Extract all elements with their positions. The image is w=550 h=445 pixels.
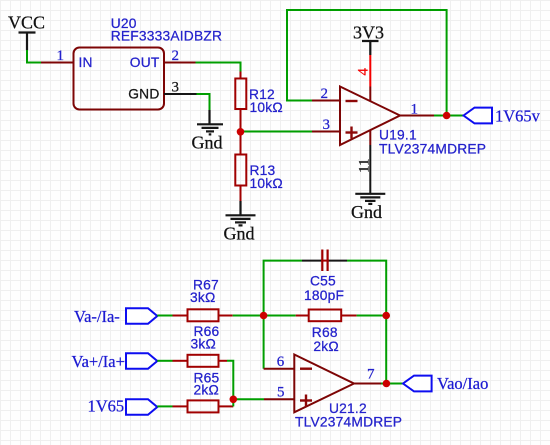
svg-text:1: 1: [57, 48, 65, 64]
svg-text:Gnd: Gnd: [351, 202, 382, 222]
svg-text:7: 7: [367, 367, 375, 383]
op-amp U19.1 triangle: [340, 87, 400, 146]
svg-text:2kΩ: 2kΩ: [194, 383, 220, 398]
svg-text:GND: GND: [128, 87, 159, 102]
feedback wire output to pin 2: [287, 10, 447, 116]
wire R68 to node B: [357, 315, 387, 317]
svg-text:3V3: 3V3: [353, 23, 384, 43]
resistor R65: [173, 400, 234, 412]
svg-text:3: 3: [172, 80, 180, 96]
wire pin 1 to port: [434, 115, 464, 117]
pin 5 (+) of U21.2: [264, 398, 294, 400]
port Vao/Iao: [403, 376, 432, 392]
svg-text:4: 4: [356, 68, 372, 76]
svg-text:3: 3: [323, 117, 331, 133]
minus marking U21.2: [300, 368, 312, 370]
power symbol 3V3: [353, 23, 384, 56]
wire node A up to C55: [264, 261, 302, 316]
svg-text:IN: IN: [79, 55, 93, 70]
IC U20 box: [74, 48, 165, 110]
pin 1 (out) of U19.1: [400, 115, 434, 117]
pin 3 (GND) of U20: [164, 93, 197, 95]
svg-text:Gnd: Gnd: [192, 133, 223, 153]
pin 3 (+) of U19.1: [312, 131, 340, 133]
wire C55 to node B: [347, 261, 386, 316]
svg-text:REF3333AIDBZR: REF3333AIDBZR: [111, 29, 222, 44]
svg-text:U19.1: U19.1: [379, 128, 417, 143]
wire node A down to pin 6: [263, 316, 265, 369]
op-amp U21.2 triangle: [294, 355, 354, 413]
pin 4 (V+) of U19.1: [369, 87, 371, 102]
wire node C to pin 5: [233, 398, 264, 400]
svg-text:3kΩ: 3kΩ: [190, 290, 216, 305]
node C: [230, 396, 238, 404]
node junction output U19.1: [443, 112, 451, 120]
ground symbol below R13: [226, 201, 256, 225]
ground symbol below U19.1: [355, 194, 385, 204]
pin 11 (V-) of U19.1: [369, 131, 371, 146]
resistor R12: [235, 72, 246, 133]
port Va-/Ia-: [126, 308, 157, 324]
power symbol VCC: [8, 13, 45, 51]
capacitor C55: [302, 250, 347, 272]
wire node to op-amp pin 3: [241, 131, 313, 133]
plus marking U21.2: [300, 395, 312, 407]
node junction R12 R13: [237, 128, 245, 136]
port 1V65: [126, 399, 157, 415]
resistor R13: [235, 132, 246, 201]
port Va+/Ia+: [126, 353, 157, 369]
ground symbol at U20 GND pin: [197, 110, 223, 134]
pin 1 (IN) of U20: [41, 62, 74, 64]
svg-text:R68: R68: [312, 325, 338, 340]
pin 2 (-) of U19.1: [312, 100, 340, 102]
wire 3V3 to pin 4: [369, 55, 371, 87]
svg-text:10kΩ: 10kΩ: [250, 176, 283, 191]
node A: [260, 312, 268, 320]
wire U20 GND to ground: [197, 94, 210, 110]
wire OUT to R12: [196, 63, 241, 72]
wire R67 to node A: [233, 315, 264, 317]
svg-text:OUT: OUT: [130, 55, 160, 70]
svg-text:11: 11: [357, 159, 373, 173]
wire pin 11 to ground: [369, 145, 371, 194]
svg-text:2kΩ: 2kΩ: [313, 339, 339, 354]
svg-text:1: 1: [411, 102, 419, 118]
svg-text:Va-/Ia-: Va-/Ia-: [74, 307, 120, 326]
wire R65 to node C: [232, 399, 234, 406]
pin 2 (OUT) of U20: [164, 62, 196, 64]
wire R66 to node C: [227, 361, 233, 400]
svg-text:C55: C55: [310, 274, 336, 289]
plus marking U19.1: [346, 127, 358, 139]
wire port to R65: [157, 405, 172, 407]
svg-text:Va+/Ia+: Va+/Ia+: [72, 352, 125, 371]
resistor R67: [173, 309, 233, 321]
svg-text:TLV2374MDREP: TLV2374MDREP: [379, 142, 486, 157]
svg-text:3kΩ: 3kΩ: [191, 337, 217, 352]
minus marking U19.1: [346, 100, 358, 102]
resistor R68: [296, 310, 357, 322]
svg-text:TLV2374MDREP: TLV2374MDREP: [295, 415, 402, 430]
svg-text:2: 2: [172, 48, 180, 64]
svg-text:Vao/Iao: Vao/Iao: [437, 374, 488, 393]
svg-text:1V65v: 1V65v: [495, 107, 541, 126]
wire pin 7 to port: [381, 383, 403, 385]
svg-text:5: 5: [277, 385, 285, 401]
resistor R66: [173, 355, 228, 367]
svg-text:Gnd: Gnd: [224, 224, 255, 244]
pin 6 (-) of U21.2: [264, 368, 295, 370]
node junction output U21.2: [383, 380, 391, 388]
pin 7 (out) of U21.2: [354, 383, 381, 385]
svg-text:2: 2: [321, 86, 329, 102]
svg-text:1V65: 1V65: [88, 397, 125, 416]
node B: [382, 312, 390, 320]
wire port to R67: [157, 315, 172, 317]
port 1V65v: [464, 108, 493, 124]
wire node B down to output node: [385, 316, 387, 384]
wire VCC to U20 pin 1: [27, 50, 41, 63]
wire port to R66: [157, 360, 172, 362]
svg-text:VCC: VCC: [8, 13, 45, 33]
svg-text:180pF: 180pF: [304, 288, 344, 303]
wire node A to R68: [264, 315, 296, 317]
svg-text:6: 6: [277, 354, 285, 370]
svg-text:10kΩ: 10kΩ: [250, 100, 283, 115]
